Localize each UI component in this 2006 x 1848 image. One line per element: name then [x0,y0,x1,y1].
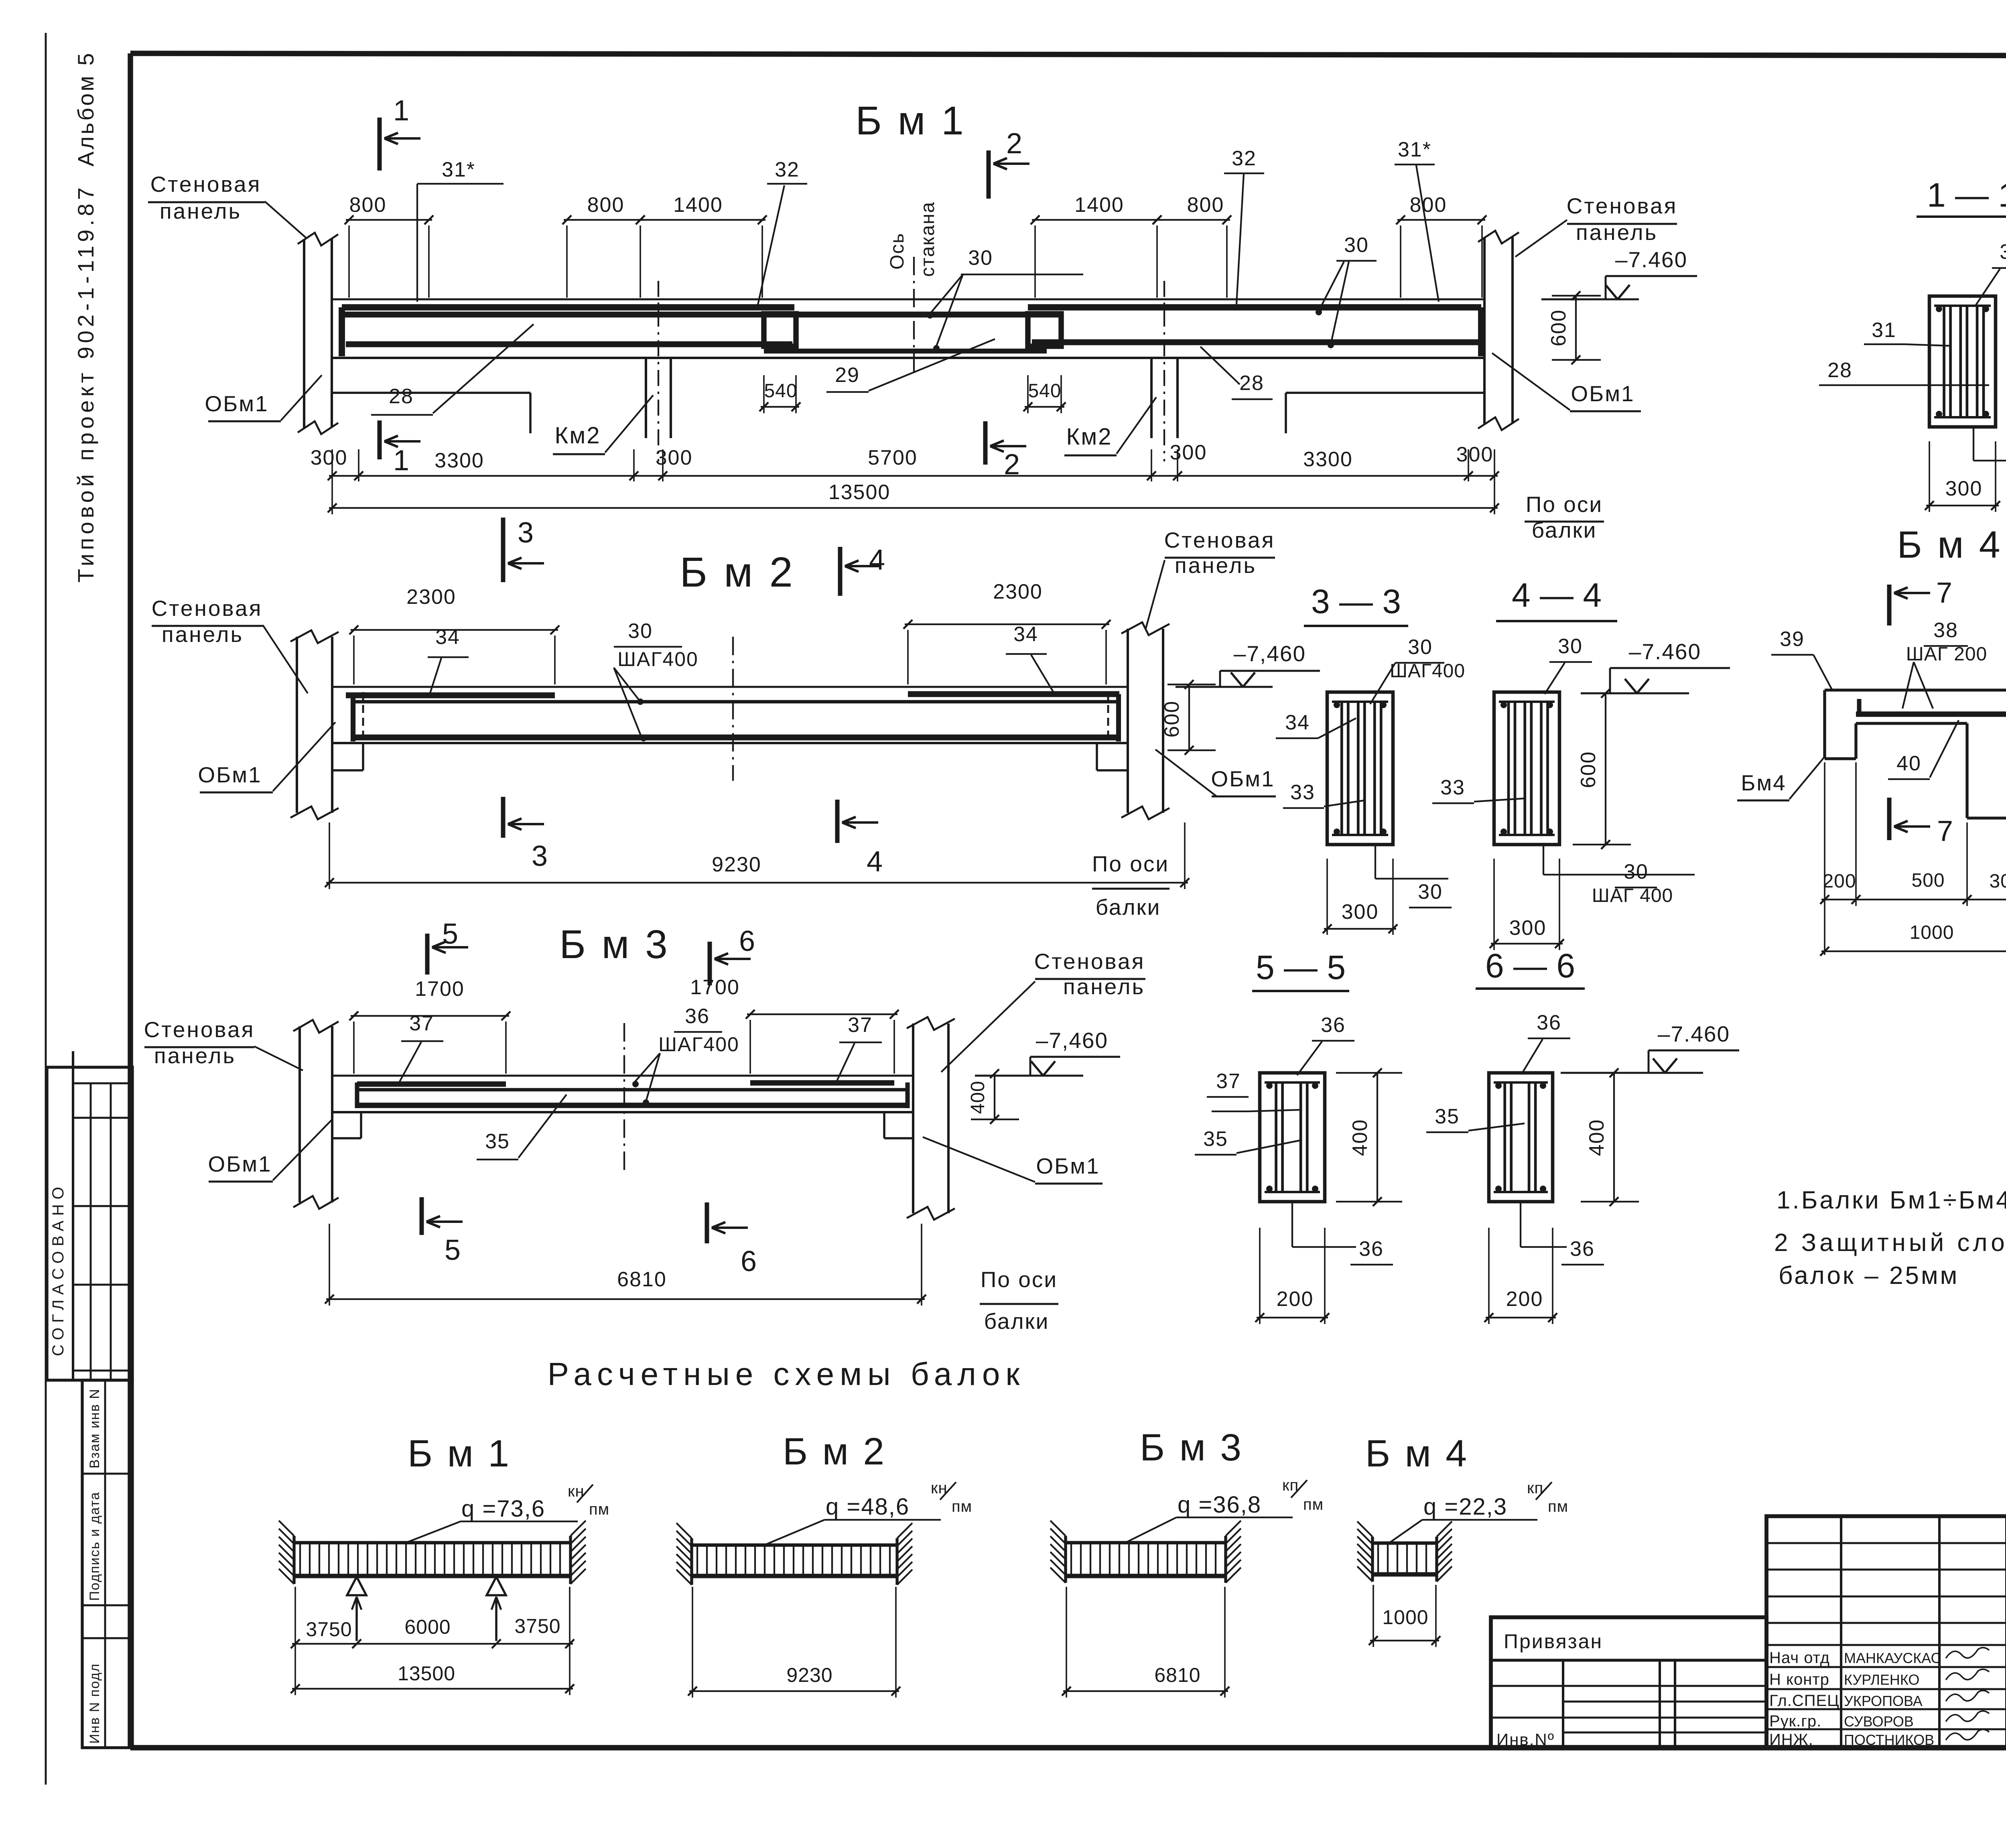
svg-text:панель: панель [1175,553,1257,578]
svg-text:ПОСТНИКОВ: ПОСТНИКОВ [1844,1732,1934,1748]
svg-text:800: 800 [349,193,387,217]
svg-text:ИНЖ.: ИНЖ. [1769,1731,1813,1748]
label 31* left with leader [417,158,504,302]
label 31* right with leader [1395,138,1439,302]
label 31 of 1-1 [1864,319,1951,346]
svg-text:300: 300 [1989,871,2006,892]
svg-text:балки: балки [1096,895,1161,920]
svg-text:3300: 3300 [434,449,484,472]
svg-text:ШАГ 200: ШАГ 200 [1906,644,1987,665]
section header 4 - 4 [1496,576,1617,621]
label Стеновая панель left of Бм2 [152,596,308,693]
section marker 6 top [710,925,755,985]
svg-text:3: 3 [518,517,534,549]
wall panel right of Бм3 [907,1017,955,1220]
section 4-4 cross-section [1494,692,1559,845]
label Стеновая панель left of Бм1 with leader [148,172,306,238]
svg-text:30: 30 [628,619,653,643]
vertical dimension 600 right of Бм1 [1547,291,1601,364]
note line 3 [1779,1262,1959,1290]
section header 6 - 6 [1476,947,1585,989]
section 5-5 cross-section [1260,1073,1325,1202]
label 32 left with leader [757,158,807,307]
svg-text:Б м 2: Б м 2 [783,1430,886,1473]
label 34 left of Бм2 [428,625,469,698]
svg-text:q =22,3: q =22,3 [1423,1494,1507,1520]
svg-text:31: 31 [1872,319,1896,342]
label По оси балки for Бм3 [980,1267,1058,1334]
load scheme Бм3 fixed wall right [1226,1521,1241,1583]
svg-text:пм: пм [589,1501,609,1518]
svg-text:300: 300 [311,446,348,469]
svg-text:34: 34 [1013,623,1038,646]
label По оси балки for Бм1 [1525,492,1604,542]
load scheme Бм4 fixed wall left [1357,1521,1373,1582]
svg-text:28: 28 [1827,359,1852,382]
load scheme Бм2 q label [764,1479,972,1545]
svg-text:6: 6 [741,1245,757,1277]
svg-text:35: 35 [1203,1127,1228,1151]
svg-text:Стеновая: Стеновая [150,172,262,197]
beam Бм3 top rebar 37 right [750,1080,894,1085]
label Стеновая панель right of Бм2 [1146,528,1275,628]
side text Типовой проект 902-1-119.87 [73,184,98,583]
load scheme Бм1 fixed wall right [571,1521,586,1584]
svg-text:300: 300 [1945,477,1983,500]
label 30 top of 1-1 [1976,240,2006,305]
label Бм4 pointing to bracket [1737,757,1825,800]
svg-text:Стеновая: Стеновая [152,596,263,621]
dimension 540 left joint box [759,375,800,413]
svg-text:Рук.гр.: Рук.гр. [1769,1712,1821,1730]
svg-text:3750: 3750 [514,1615,560,1637]
svg-text:Гл.СПЕЦ: Гл.СПЕЦ [1769,1692,1840,1710]
svg-text:ШАГ400: ШАГ400 [658,1033,739,1056]
svg-text:36: 36 [1570,1237,1595,1261]
svg-text:балок – 25мм: балок – 25мм [1779,1262,1959,1290]
svg-text:300: 300 [1170,441,1207,464]
load scheme Бм1 fixed wall left [279,1521,294,1584]
section marker 7 bottom [1889,798,1953,847]
svg-text:ОБм1: ОБм1 [205,391,268,416]
section 6-6 cross-section [1489,1073,1553,1202]
svg-text:–7.460: –7.460 [1615,247,1687,272]
load scheme Бм1 support left [347,1577,366,1641]
label Ось стакана (vertical) [887,201,938,277]
svg-text:Нач отд: Нач отд [1769,1649,1830,1667]
svg-text:30: 30 [1418,880,1443,904]
svg-text:стакана: стакана [917,201,938,277]
dimension 1700 left of Бм3 [349,977,510,1074]
svg-text:3300: 3300 [1303,448,1353,471]
elevation mark -7.460 right of Бм3 [975,1028,1120,1076]
svg-text:39: 39 [1780,628,1805,651]
bottom dimensions 200 500 300 of Бм4 [1820,762,2006,955]
beam Бм2 rebar 30 line [353,700,1119,704]
joint box left (стакан) with 540 width [764,314,796,346]
dimension 1000 of Бм4 [1820,922,2006,956]
load scheme title Бм2 [783,1430,886,1473]
label 30 bottom of 1-1 [1974,427,2006,476]
beam Бм1 rebar 29 middle segment [343,312,1061,318]
svg-text:Б м 3: Б м 3 [1140,1426,1243,1469]
label 28 of 1-1 with leader [1819,359,1989,385]
svg-text:300: 300 [1342,900,1379,924]
load scheme Бм3 dimension 6810 [1062,1587,1229,1698]
svg-text:9230: 9230 [712,853,761,876]
svg-text:панель: панель [162,622,244,647]
svg-text:СУВОРОВ: СУВОРОВ [1844,1713,1914,1730]
beam Бм2 end hooks [353,692,1119,743]
title block Привязан box [1491,1617,1766,1749]
svg-text:По оси: По оси [1092,851,1169,876]
svg-text:36: 36 [1359,1237,1384,1261]
label 36 bottom of 5-5 [1292,1202,1393,1265]
elevation mark -7.460 right of Бм2 [1176,641,1320,687]
svg-text:36: 36 [1321,1013,1346,1037]
svg-text:400: 400 [967,1080,989,1114]
svg-text:2300: 2300 [406,585,456,609]
elevation mark -7.460 of 6-6 [1561,1021,1739,1073]
svg-text:Стеновая: Стеновая [144,1017,255,1042]
svg-text:3750: 3750 [306,1618,352,1641]
ledge ОБм1 right under beam [1286,393,1484,433]
load scheme Бм4 beam with distributed load [1373,1543,1436,1574]
label ОБм1 left of Бм3 [208,1120,331,1182]
vertical dimension 600 of 4-4 [1573,689,1631,849]
svg-text:панель: панель [154,1043,236,1068]
svg-text:2: 2 [1006,128,1022,160]
section marker 7 top [1889,577,1952,625]
svg-text:30: 30 [2000,240,2006,264]
label Стеновая панель right of Бм1 with leader [1515,193,1677,257]
label 36 top of 5-5 [1297,1013,1354,1075]
beam Бм2 bottom rebar 33 [353,735,1119,741]
svg-text:32: 32 [1232,147,1257,170]
svg-text:200: 200 [1823,871,1856,892]
dimension 6810 of Бм3 [325,1224,926,1306]
svg-text:УКРОПОВА: УКРОПОВА [1844,1693,1923,1709]
dimension 300 of 3-3 [1323,859,1397,935]
svg-text:2 Защитный слой бетона для раб: 2 Защитный слой бетона для рабочей армат… [1774,1229,2006,1257]
label 38 шаг 200 of Бм4 with leaders [1902,619,1987,709]
joint box right (стакан) [1028,314,1061,346]
svg-text:5700: 5700 [868,446,918,469]
svg-text:13500: 13500 [398,1662,455,1685]
section marker 6 bottom [707,1202,757,1277]
dimension 9230 of Бм2 [325,822,1189,889]
svg-text:30: 30 [968,246,993,270]
svg-text:600: 600 [1577,751,1600,788]
svg-text:Б м 1: Б м 1 [855,98,966,143]
top dimension row of Бм1: 800 800 1400 1400 800 800 [345,193,1486,298]
centerline of Бм3 [623,1023,625,1173]
svg-text:ОБм1: ОБм1 [1571,381,1634,406]
label 37 right of Бм3 [837,1013,882,1081]
svg-text:5: 5 [442,918,458,950]
svg-text:Альбом 5: Альбом 5 [73,51,98,167]
dimension 1700 right of Бм3 [690,976,899,1074]
side text Альбом 5 [73,51,98,167]
section marker 1 top [380,95,420,171]
section marker 4 bottom [837,800,883,878]
ledge ОБм1 right under Бм3 [884,1112,913,1138]
label 40 of Бм4 with leader [1888,720,1959,779]
beam Бм4 bracket outline [1825,690,2006,818]
svg-text:2300: 2300 [993,580,1043,603]
svg-text:панель: панель [1063,974,1145,999]
note line 2 [1774,1229,2006,1257]
svg-text:300: 300 [1509,916,1547,940]
label 30 шаг 400 top of 3-3 [1370,636,1465,704]
svg-text:пм: пм [952,1498,972,1515]
load scheme Бм1 beam with distributed load [295,1543,570,1576]
label 30 top of 4-4 [1545,635,1592,694]
svg-text:балки: балки [984,1309,1050,1334]
load scheme Бм4 q label [1389,1479,1568,1543]
svg-text:ОБм1: ОБм1 [198,762,262,787]
load scheme Бм2 fixed wall left [676,1523,692,1585]
svg-text:Б м 4: Б м 4 [1897,524,2002,566]
svg-text:По оси: По оси [1526,492,1603,517]
ledge ОБм1 left under beam [332,393,530,433]
ledge ОБм1 right under Бм2 [1097,743,1128,770]
svg-text:35: 35 [485,1130,510,1153]
svg-text:Стеновая: Стеновая [1567,193,1678,218]
section marker 1 bottom [380,420,420,477]
section 1-1 cross-section [1929,296,1996,427]
svg-text:1 — 1: 1 — 1 [1927,176,2006,214]
label 37 left of Бм3 [400,1012,443,1082]
label 37 of 5-5 [1207,1070,1302,1111]
section marker 2 bottom [985,421,1026,481]
svg-text:Б м 4: Б м 4 [1365,1432,1469,1475]
svg-text:6810: 6810 [617,1268,667,1291]
label По оси балки for Бм2 [1092,851,1169,920]
beam Бм2 top rebar 34 left [346,692,555,699]
label ОБм1 left of Бм1 with leader [205,375,322,421]
label 28 right with leader [1200,347,1273,399]
beam Бм2 outline [332,687,1128,743]
svg-text:28: 28 [1239,372,1264,395]
beam Бм3 top rebar 37 left [357,1081,506,1086]
title Бм2 [680,549,795,596]
load scheme Бм1 dimension 13500 [291,1587,574,1695]
section header 3 - 3 [1304,583,1408,626]
svg-text:панель: панель [1576,220,1658,245]
svg-text:q =36,8: q =36,8 [1178,1492,1261,1518]
label Км2 right with leader [1064,397,1156,455]
title block signature table [1766,1516,2006,1748]
beam Бм2 top rebar 34 right [908,691,1119,697]
svg-text:Стеновая: Стеновая [1164,528,1275,552]
svg-text:300: 300 [1456,443,1494,466]
dimension 300 of 1-1 [1925,441,2000,512]
elevation mark -7.460 right of Бм1 [1541,247,1697,299]
dimension 540 right joint box [1023,375,1066,413]
beam Бм1 bottom rebar 28 right [1032,339,1478,345]
beam Бм1 top rebar 32 right segment [1028,307,1481,356]
svg-text:Инв N подл: Инв N подл [87,1663,102,1744]
label Стеновая панель right of Бм3 [941,949,1145,1072]
svg-text:Подпись и дата: Подпись и дата [87,1491,102,1601]
load scheme title Бм3 [1140,1426,1243,1469]
svg-text:По оси: По оси [981,1267,1058,1292]
section marker 3 top [503,517,544,582]
svg-text:36: 36 [1537,1011,1561,1034]
svg-text:29: 29 [835,364,860,387]
svg-text:СОГЛАСОВАНО: СОГЛАСОВАНО [49,1182,67,1356]
svg-text:30: 30 [1408,636,1433,659]
svg-text:Б м 3: Б м 3 [559,922,670,967]
svg-text:1000: 1000 [1910,922,1954,943]
svg-text:30: 30 [1344,234,1369,257]
vertical dimension 400 of 5-5 [1336,1068,1402,1206]
svg-text:ШАГ 400: ШАГ 400 [1592,885,1673,906]
svg-text:4 — 4: 4 — 4 [1512,576,1602,614]
svg-text:3 — 3: 3 — 3 [1311,583,1401,620]
wall panel right of Бм1 [1478,231,1519,430]
svg-text:35: 35 [1435,1105,1460,1128]
section marker 5 top [427,918,468,975]
svg-text:36: 36 [685,1005,710,1028]
svg-text:30: 30 [1558,635,1583,658]
label ОБм1 left of Бм2 [198,722,335,792]
label 35 of 6-6 [1426,1105,1525,1132]
svg-text:1400: 1400 [1074,193,1124,217]
section marker 2 top [989,128,1029,199]
svg-text:Бм4: Бм4 [1741,770,1787,795]
svg-text:1.Балки Бм1÷Бм4 замаркированы: 1.Балки Бм1÷Бм4 замаркированы на листе 2… [1777,1186,2006,1214]
vertical dimension 400 of 6-6 [1581,1068,1639,1206]
label 36 top of 6-6 [1521,1011,1570,1074]
svg-text:13500: 13500 [828,481,891,504]
note line 1 [1777,1186,2006,1214]
title Бм4 [1897,524,2002,566]
svg-text:32: 32 [775,158,800,181]
svg-text:31*: 31* [442,158,475,181]
load scheme Бм4 fixed wall right [1437,1521,1452,1582]
label 35 of 5-5 [1195,1127,1301,1155]
load scheme Бм4 dimension 1000 [1369,1585,1440,1647]
load scheme Бм1 q label [406,1482,609,1543]
load scheme Бм2 dimension 9230 [688,1587,900,1698]
svg-text:5 — 5: 5 — 5 [1256,948,1346,986]
label 39 of Бм4 with leader [1771,628,1833,691]
svg-text:пм: пм [1548,1498,1568,1515]
svg-text:1700: 1700 [690,976,740,999]
svg-text:1: 1 [393,95,409,127]
svg-text:3: 3 [532,840,548,872]
title Бм1 [855,98,966,143]
svg-text:1: 1 [393,445,409,477]
label 30 шаг 400 bottom of 4-4 [1543,845,1695,906]
beam Бм1 top rebar 32 left segment [342,307,794,356]
label 28 left with leader [371,324,534,415]
svg-text:–7.460: –7.460 [1658,1021,1730,1046]
svg-text:34: 34 [435,625,460,649]
svg-text:Н контр: Н контр [1769,1671,1829,1688]
svg-text:–7,460: –7,460 [1234,641,1306,666]
beam Бм1 bottom rebar middle segment [764,349,1047,353]
svg-text:Взам инв N: Взам инв N [87,1388,102,1468]
left stamp table СОГЛАСОВАНО [47,1051,132,1380]
svg-text:200: 200 [1506,1288,1543,1311]
svg-text:800: 800 [1410,193,1447,217]
label 30 bottom of 3-3 [1375,845,1452,908]
svg-text:540: 540 [764,380,797,402]
beam Бм1 bottom rebar 28 left [346,341,792,347]
section 3-3 cross-section [1327,692,1393,845]
svg-text:600: 600 [1547,309,1570,347]
svg-text:4: 4 [867,846,883,878]
svg-text:500: 500 [1911,870,1945,891]
label 34 right of Бм2 [1006,623,1054,694]
svg-text:400: 400 [1585,1119,1608,1156]
svg-text:КУРЛЕНКО: КУРЛЕНКО [1844,1671,1919,1688]
svg-text:9230: 9230 [786,1664,832,1686]
label ОБм1 right of Бм2 [1155,749,1276,797]
svg-text:7: 7 [1936,577,1952,609]
ledge ОБм1 left under Бм3 [332,1112,361,1138]
svg-text:400: 400 [1348,1119,1372,1156]
left stamp table Взам инв / Подпись и дата / Инв подл [82,1380,132,1748]
section marker 5 bottom [422,1197,463,1266]
svg-text:МАНКАУСКАС: МАНКАУСКАС [1844,1650,1941,1666]
svg-text:300: 300 [656,446,693,469]
centerline of Бм2 [732,637,734,781]
wall panel right of Бм2 [1121,622,1169,819]
label 30 right with leaders [1316,234,1377,348]
load scheme title Бм1 [408,1432,511,1475]
svg-text:34: 34 [1285,711,1310,734]
label 35 of Бм3 with leader [477,1095,566,1160]
dimension 200 of 5-5 [1255,1228,1329,1324]
elevation mark -7.460 of 4-4 [1581,639,1730,693]
svg-text:Км2: Км2 [1066,424,1113,450]
section header 1 - 1 [1917,176,2006,217]
svg-text:Б м 1: Б м 1 [408,1432,511,1475]
svg-text:31*: 31* [1398,138,1431,161]
svg-text:Км2: Км2 [555,422,601,449]
label 36 bottom of 6-6 [1521,1202,1604,1265]
svg-text:ШАГ400: ШАГ400 [1390,660,1465,682]
dimension 2300 right of Бм2 [904,580,1111,684]
centerline ось стакана [913,257,915,373]
label 34 of 3-3 [1276,711,1356,738]
svg-text:28: 28 [389,385,414,408]
bottom dimension row 2 of Бм1: 13500 [328,481,1499,514]
label Км2 left with leader [553,395,653,454]
svg-text:5: 5 [445,1234,461,1266]
svg-text:–7.460: –7.460 [1629,639,1701,664]
paper edge line [45,33,47,1785]
wall panel left of Бм2 [290,630,339,819]
svg-text:q =48,6: q =48,6 [826,1494,910,1520]
label Стеновая панель left of Бм3 [144,1017,303,1070]
svg-text:Типовой проект 902-1-119.87: Типовой проект 902-1-119.87 [73,184,98,583]
svg-text:33: 33 [1440,776,1465,799]
svg-text:ОБм1: ОБм1 [1211,766,1275,791]
beam Бм3 bottom rebar 35 [357,1103,909,1108]
svg-text:ШАГ400: ШАГ400 [617,648,698,670]
wall panel left of Бм1 [298,233,338,434]
load scheme Бм3 q label [1125,1476,1324,1543]
svg-text:пм: пм [1303,1496,1324,1513]
load scheme Бм1 dimensions 3750 6000 3750 [291,1615,574,1648]
svg-text:37: 37 [409,1012,434,1035]
support column Км2 left under Бм1 [646,281,671,461]
